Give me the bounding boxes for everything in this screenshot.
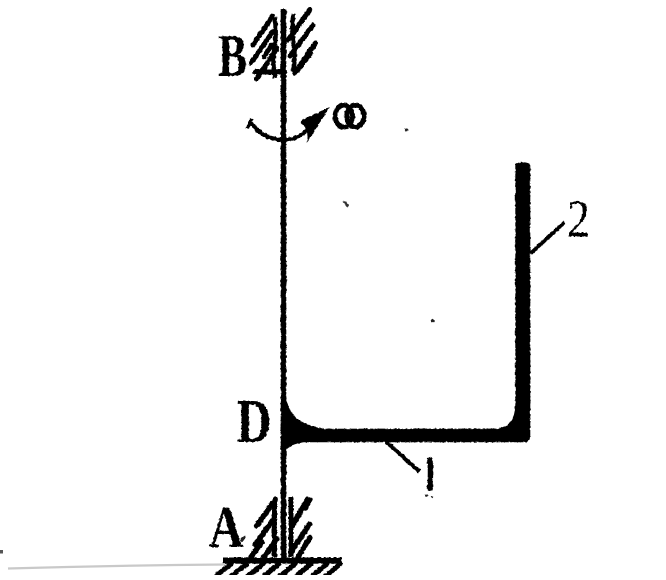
speck left of bearing A bbox=[241, 537, 246, 542]
bearing A right wall bbox=[289, 497, 294, 557]
bearing B hatching left bbox=[251, 16, 284, 79]
leader line to label 2 bbox=[531, 223, 565, 254]
specks under label 1 bbox=[425, 494, 428, 497]
svg-text:2: 2 bbox=[567, 191, 590, 249]
ground hatching below line bbox=[217, 564, 340, 577]
rod 1 and rod 2 (bent rod body with fillets at D) bbox=[281, 162, 530, 450]
rotation arrowhead bbox=[300, 107, 330, 143]
bearing B hatching right bbox=[288, 10, 316, 74]
noise speck slash bbox=[344, 202, 349, 207]
bearing A left wall bbox=[272, 499, 277, 557]
bearing A hatching right bbox=[292, 500, 311, 558]
leader line to label 1 bbox=[386, 442, 420, 472]
svg-text:D: D bbox=[237, 388, 272, 456]
label 1 (drawn digit) bbox=[430, 458, 431, 491]
label omega (drawn as two merged loops) bbox=[335, 105, 364, 127]
ground line at A bbox=[223, 558, 342, 564]
rotation arrow arc (omega) bbox=[250, 121, 309, 140]
bearing B left wall bbox=[273, 17, 275, 78]
bearing B right wall bbox=[292, 14, 294, 72]
bearing A hatching left bbox=[251, 500, 277, 558]
faint page shadow bottom left bbox=[8, 565, 225, 569]
noise speck top bbox=[405, 128, 408, 131]
rotation arrow tail tick bbox=[247, 119, 251, 129]
corner speck bottom left bbox=[0, 550, 3, 554]
svg-text:B: B bbox=[218, 23, 247, 89]
shaft AB (vertical axis of rotation) bbox=[281, 9, 287, 560]
svg-text:A: A bbox=[209, 494, 244, 560]
noise speck middle right bbox=[431, 319, 434, 322]
